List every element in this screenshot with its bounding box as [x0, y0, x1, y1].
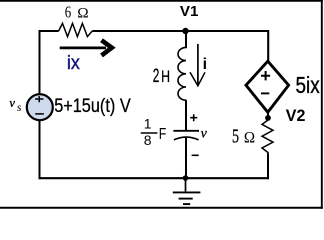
- source plus sign: [35, 96, 43, 102]
- wire left vertical lower: [39, 121, 41, 179]
- ground stem: [185, 178, 187, 191]
- current arrow ix shaft: [60, 47, 106, 50]
- capacitor C1 top plate: [173, 130, 199, 132]
- svg-text:6: 6: [65, 2, 71, 21]
- ground junction dot: [183, 175, 189, 181]
- svg-text:F: F: [159, 126, 167, 143]
- wire right vertical below diamond: [267, 111, 269, 119]
- voltage source VS circle: [27, 94, 53, 120]
- node V2 dot: [265, 115, 271, 121]
- wire middle below capacitor: [185, 138, 187, 179]
- resistor R2 5ohm zigzag: [262, 120, 273, 155]
- svg-text:s: s: [17, 100, 22, 114]
- ground bar 1: [173, 191, 201, 193]
- wire right vertical lower: [267, 154, 269, 180]
- wire top middle horizontal: [92, 30, 269, 32]
- svg-text:Ω: Ω: [244, 129, 255, 146]
- svg-text:V1: V1: [180, 4, 199, 20]
- svg-text:Ω: Ω: [77, 5, 88, 21]
- svg-text:v: v: [9, 96, 15, 110]
- capacitor minus sign: [192, 154, 199, 156]
- wire top-left stub: [39, 30, 59, 32]
- diamond minus sign: [261, 92, 269, 94]
- capacitor plus sign: [190, 114, 197, 121]
- fraction bar: [141, 132, 158, 134]
- svg-text:2: 2: [153, 66, 160, 87]
- ground bar 2: [179, 198, 193, 200]
- svg-text:1: 1: [144, 115, 152, 131]
- svg-text:ix: ix: [67, 52, 80, 74]
- current arrow i head: [190, 72, 205, 86]
- diamond plus sign: [261, 71, 270, 80]
- svg-text:8: 8: [144, 132, 152, 148]
- svg-text:H: H: [161, 67, 170, 86]
- node V1 dot: [182, 28, 188, 34]
- svg-text:5: 5: [232, 127, 239, 148]
- svg-text:i: i: [203, 56, 207, 73]
- wire bottom horizontal: [39, 177, 270, 179]
- border frame top: [0, 0, 323, 2]
- wire middle between coil and capacitor: [185, 100, 187, 131]
- wire left vertical upper: [39, 30, 41, 94]
- svg-text:v: v: [201, 127, 208, 142]
- current arrow ix head: [102, 40, 112, 55]
- current arrow i shaft: [197, 44, 199, 85]
- svg-text:5+15u(t) V: 5+15u(t) V: [54, 95, 131, 117]
- inductor L1 2H coil: [178, 47, 186, 100]
- ground bar 3: [183, 203, 190, 205]
- svg-text:V2: V2: [286, 107, 306, 125]
- resistor R1 6ohm zigzag: [59, 23, 93, 36]
- svg-text:5ix: 5ix: [296, 72, 321, 98]
- wire middle vertical upper: [185, 30, 187, 48]
- wire right vertical upper: [267, 30, 269, 62]
- source minus sign: [35, 113, 44, 115]
- dependent source U1 diamond: [246, 61, 289, 112]
- capacitor C1 curved bottom plate: [174, 137, 199, 140]
- border frame right: [321, 0, 323, 209]
- border frame bottom: [0, 207, 323, 209]
